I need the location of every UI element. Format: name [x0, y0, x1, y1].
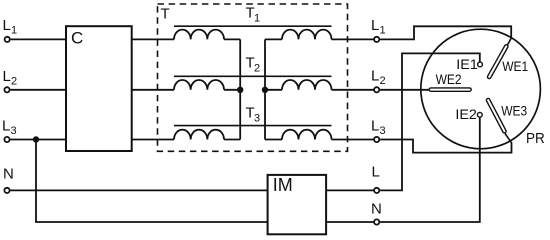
inductor T1 right winding — [282, 30, 332, 40]
plasma reactor vessel PR — [421, 29, 541, 149]
svg-text:L: L — [372, 164, 380, 181]
inductor T3 right winding — [282, 130, 332, 140]
terminal N right — [374, 219, 379, 224]
wire L2 right to WE2 — [380, 89, 431, 91]
svg-text:3: 3 — [254, 113, 260, 125]
wire primary star bus — [239, 39, 241, 139]
inductor T2 left winding — [174, 80, 224, 90]
svg-text:L: L — [371, 118, 379, 135]
svg-text:1: 1 — [11, 25, 17, 37]
node N right label — [371, 201, 382, 218]
wire L1 right to WE1 — [380, 26, 511, 39]
svg-text:2: 2 — [254, 63, 260, 75]
node L2 right label — [371, 68, 386, 88]
label T — [161, 6, 170, 23]
terminal N left — [4, 188, 9, 193]
svg-text:N: N — [3, 166, 14, 183]
svg-text:L: L — [3, 17, 11, 34]
wire T2 right winding to L2 right terminal — [332, 89, 374, 91]
svg-text:IM: IM — [273, 175, 293, 195]
core line T1 — [174, 25, 332, 27]
terminal L3 left — [4, 137, 9, 142]
electrode IE1 — [478, 62, 483, 67]
transformer block dashed box T — [158, 4, 348, 151]
terminal L1 left — [5, 37, 10, 42]
wire N left to IM — [10, 189, 267, 191]
terminal L1 right — [374, 37, 379, 42]
terminal L right — [374, 188, 379, 193]
svg-text:L: L — [2, 118, 10, 135]
junction on L3 wire — [33, 136, 39, 142]
svg-text:PR: PR — [526, 130, 545, 147]
label T1 — [246, 5, 261, 25]
wire C to T row3 — [132, 139, 174, 141]
terminal L3 right — [374, 137, 379, 142]
label PR — [526, 130, 545, 147]
wire C to T row2 — [132, 89, 174, 91]
inductor T1 left winding — [174, 30, 224, 40]
node L1 left label — [3, 17, 18, 37]
svg-text:WE1: WE1 — [502, 59, 528, 74]
svg-text:3: 3 — [11, 125, 17, 137]
svg-text:T: T — [161, 6, 170, 23]
electrode WE3 lead — [505, 134, 512, 143]
svg-text:IE1: IE1 — [456, 57, 478, 72]
wire L3 left to C — [10, 139, 66, 141]
svg-text:1: 1 — [380, 25, 386, 37]
electrode WE1 — [489, 46, 506, 77]
svg-text:2: 2 — [380, 75, 386, 87]
wire T1 left winding to star bus — [224, 38, 240, 40]
wire T3 right winding to L3 right terminal — [332, 139, 374, 141]
svg-text:WE3: WE3 — [501, 103, 527, 118]
wire IM to L terminal — [326, 189, 374, 191]
wire secondary star bus — [264, 39, 266, 139]
svg-text:N: N — [371, 201, 382, 218]
wire L1 left to C — [11, 38, 66, 40]
wire star bus to T2 right winding — [265, 89, 282, 91]
wire T2 left winding to star bus — [224, 89, 240, 91]
label T3 — [246, 105, 261, 125]
inductor T2 right winding — [282, 80, 332, 90]
wire L3 junction down and right to IM — [36, 140, 268, 223]
electrode IE2 — [477, 112, 482, 117]
node N left label — [3, 166, 14, 183]
label WE3 — [501, 103, 527, 118]
terminal L2 left — [4, 87, 9, 92]
node L right label — [372, 164, 380, 181]
wire star bus to T1 right winding — [265, 38, 282, 40]
wire star bus to T3 right winding — [265, 139, 282, 141]
electrode WE3 — [488, 100, 504, 131]
svg-text:WE2: WE2 — [436, 72, 462, 87]
junction primary star — [237, 87, 243, 93]
wire T3 left winding to star bus — [224, 139, 240, 141]
electrode WE1 lead — [507, 38, 511, 46]
terminal L2 right — [374, 87, 379, 92]
svg-text:C: C — [71, 29, 83, 48]
svg-text:3: 3 — [380, 125, 386, 137]
svg-text:IE2: IE2 — [455, 107, 477, 122]
label WE2 — [436, 72, 462, 87]
ignition module IM — [268, 175, 327, 234]
svg-text:L: L — [371, 68, 379, 85]
inductor T3 left winding — [174, 130, 224, 140]
svg-text:2: 2 — [11, 76, 17, 88]
label T2 — [246, 55, 261, 75]
core line T2 — [174, 75, 332, 77]
label IE2 — [455, 107, 477, 122]
svg-text:L: L — [3, 68, 11, 85]
junction secondary star — [262, 87, 268, 93]
core line T3 — [174, 125, 332, 127]
wire L2 left to C — [10, 89, 66, 91]
wire IM to N terminal — [326, 221, 374, 223]
node L1 right label — [371, 17, 386, 37]
electrode WE2 — [431, 87, 470, 92]
node L3 right label — [371, 118, 386, 138]
node L3 left label — [2, 118, 17, 138]
wire IE2 down to N — [380, 117, 480, 222]
node L2 left label — [3, 68, 18, 88]
wire C to T row1 — [132, 38, 174, 40]
label IE1 — [456, 57, 478, 72]
svg-text:L: L — [371, 17, 379, 34]
svg-text:1: 1 — [254, 13, 260, 25]
wire IE1 to L — [380, 53, 480, 190]
wire T1 right winding to L1 right terminal — [332, 38, 374, 40]
converter C — [66, 26, 132, 151]
label WE1 — [502, 59, 528, 74]
wire L3 right to WE3 — [380, 140, 511, 153]
